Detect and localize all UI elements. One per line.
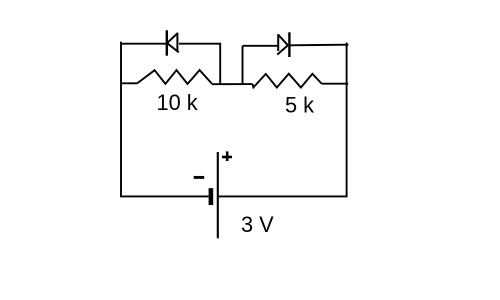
battery minus sign — [194, 176, 205, 179]
wire resistor-row right stub — [322, 83, 349, 85]
svg-text:3 V: 3 V — [241, 212, 274, 237]
diode D1 triangle (points left) — [167, 33, 179, 53]
battery plus sign — [222, 151, 232, 161]
wire top-right branch, right of diode D2 — [290, 44, 349, 47]
wire resistor-row middle segment — [212, 83, 253, 85]
wire resistor-row left stub — [121, 82, 137, 84]
diode D2 triangle (points right) — [277, 34, 288, 54]
resistor R1 10k zigzag — [137, 70, 212, 84]
svg-text:10 k: 10 k — [157, 90, 198, 115]
wire mid-left vertical drop — [219, 43, 221, 84]
diode D1 cathode bar — [166, 30, 168, 55]
wire right vertical — [346, 43, 348, 198]
wire bottom left segment — [120, 195, 209, 197]
diode D2 cathode bar — [288, 32, 290, 57]
wire top-left branch, left of diode D1 — [121, 43, 166, 45]
battery negative plate (short thick) — [209, 188, 214, 205]
wire top-right branch, left of diode D2 — [243, 45, 278, 47]
battery positive plate (long thin) — [217, 152, 219, 238]
wire bottom right segment — [219, 195, 348, 197]
svg-text:5 k: 5 k — [285, 93, 314, 118]
wire top-left branch, right of diode D1 — [179, 43, 220, 45]
wire mid-right vertical rise — [242, 46, 244, 84]
wire left vertical — [120, 42, 122, 197]
resistor R2 5k zigzag — [253, 74, 322, 88]
